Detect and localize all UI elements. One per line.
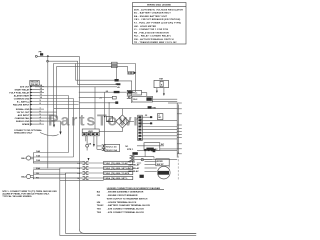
svg-text:B + BATT(+): B + BATT(+) [17, 100, 30, 103]
svg-text:AUX INPUT: AUX INPUT [18, 114, 30, 117]
connector CB1 on wires [112, 62, 118, 64]
svg-text:RL1 - RELAY 1 (CRANK RELAY): RL1 - RELAY 1 (CRANK RELAY) [134, 35, 171, 38]
battery BA2 [21, 167, 82, 180]
svg-text:BA - ENGINE BATTERY UNIT: BA - ENGINE BATTERY UNIT [134, 15, 168, 18]
svg-text:NO RELAY: NO RELAY [128, 167, 140, 170]
svg-text:T1/U1-1 41: T1/U1-1 41 [106, 145, 118, 148]
svg-text:FB - FIELD BOOST RESISTOR: FB - FIELD BOOST RESISTOR [134, 32, 169, 34]
relay RL1 [127, 90, 141, 95]
svg-text:ALARM START: ALARM START [14, 94, 30, 97]
battery charger BC box [137, 143, 165, 153]
svg-text:AVR - AUTOMATIC VOLTAGE REGULA: AVR - AUTOMATIC VOLTAGE REGULATOR [134, 8, 183, 11]
svg-text:FAILURE INPUT: FAILURE INPUT [13, 103, 30, 106]
small box left of diamond [106, 116, 112, 121]
ATS box [156, 159, 169, 166]
svg-text:14A: 14A [36, 150, 40, 153]
svg-text:WITH OUTPUT TO TRANSFER SWITCH: WITH OUTPUT TO TRANSFER SWITCH [107, 197, 148, 200]
terminal text rows center [97, 146, 102, 149]
op-amp AVR box [82, 129, 99, 136]
wire node down [47, 57, 49, 168]
strip wires to bus [142, 116, 152, 118]
TB terminal row [137, 149, 177, 151]
svg-text:J1 - CONNECTOR 1 FOR PCB: J1 - CONNECTOR 1 FOR PCB [134, 29, 168, 31]
connector circle top right [141, 158, 143, 160]
connector symbols small [130, 155, 135, 160]
svg-text:T2/U2-3 9A: T2/U2-3 9A [106, 149, 118, 152]
svg-text:START RELAY: START RELAY [14, 88, 29, 91]
terminal rows with boxes [33, 161, 133, 180]
svg-text:PIN NO: PIN NO [31, 84, 39, 86]
MOLEX header box [30, 80, 39, 85]
svg-text:CB1 - CIRCUIT BREAKER (EXCITAT: CB1 - CIRCUIT BREAKER (EXCITATION) [134, 18, 180, 21]
bridge rectifier diamond [116, 115, 129, 128]
svg-text:SPARE: SPARE [22, 123, 30, 126]
svg-text:COMMON GND: COMMON GND [14, 98, 30, 100]
fuse FJ hatched [128, 71, 137, 74]
boxed labels [104, 161, 133, 164]
svg-text:13A: 13A [36, 154, 40, 157]
svg-text:NC SG: NC SG [128, 161, 135, 163]
svg-text:T4/U4 (T4) GEN. SET L: T4/U4 (T4) GEN. SET L [104, 177, 128, 180]
svg-text:BA1: BA1 [21, 157, 26, 160]
wire top band y66.6 [57, 67, 128, 118]
svg-text:12A: 12A [36, 159, 40, 162]
alarm horn circle [158, 166, 171, 179]
svg-text:- ATS CONNECT TERMINAL BLOCK: - ATS CONNECT TERMINAL BLOCK [107, 211, 145, 214]
main verticals [68, 96, 70, 153]
svg-text:- HOURS TERMINAL BLOCK: - HOURS TERMINAL BLOCK [107, 201, 137, 204]
svg-text:- ENGINE CIRCUIT BREAKER: - ENGINE CIRCUIT BREAKER [107, 194, 138, 197]
node circle mid [47, 56, 48, 57]
hour meter HM [154, 78, 169, 87]
arrow above terminal [88, 158, 90, 161]
cap marks below connector [116, 83, 118, 84]
wire y78.8 with blob [76, 64, 115, 81]
svg-text:TYPICAL TAG AND SPARES.: TYPICAL TAG AND SPARES. [2, 195, 32, 198]
svg-text:ATS OUT: ATS OUT [20, 85, 30, 88]
svg-text:SHIELDING ONLY: SHIELDING ONLY [14, 133, 33, 135]
svg-text:HM: HM [97, 202, 101, 204]
svg-text:SHIELD GND: SHIELD GND [16, 121, 30, 123]
battery BA1 [21, 150, 82, 163]
svg-text:CM RELAY: CM RELAY [128, 164, 140, 167]
connector symbols [83, 162, 89, 180]
svg-text:4A: 4A [88, 143, 91, 146]
wire y84.6 [78, 84, 120, 86]
svg-text:T1/U1 (T1) GEN. TO AT: T1/U1 (T1) GEN. TO AT [104, 162, 128, 165]
svg-text:- ATS CONNECT TERMINAL BLOCK: - ATS CONNECT TERMINAL BLOCK [107, 208, 145, 211]
connector strip J2 [138, 115, 143, 140]
svg-text:BC: BC [161, 144, 165, 146]
wire y108.6 long [54, 108, 177, 110]
svg-text:HM - HOUR METER: HM - HOUR METER [134, 26, 156, 28]
pin stubs [30, 86, 32, 125]
svg-text:- BATTERY CHARGER TERMINAL BLO: - BATTERY CHARGER TERMINAL BLOCK [107, 204, 151, 207]
svg-text:BC - BATTERY CHARGER RECT: BC - BATTERY CHARGER RECT [134, 12, 171, 15]
wire y97.4 [79, 96, 113, 98]
svg-text:BA2: BA2 [21, 176, 26, 179]
svg-text:FJ - FUEL JET POWER (LOW AFQ T: FJ - FUEL JET POWER (LOW AFQ TYPE) [134, 22, 181, 25]
node circle 2 [47, 60, 49, 62]
legend bottom [97, 187, 164, 214]
svg-text:XFER: XFER [157, 161, 163, 163]
svg-text:CHARGE FAIL: CHARGE FAIL [15, 117, 30, 120]
svg-text:12V DC OUT: 12V DC OUT [17, 112, 31, 114]
svg-text:FJ/LP FUEL RELAY: FJ/LP FUEL RELAY [9, 91, 30, 94]
svg-text:CB: CB [97, 195, 101, 197]
svg-text:T2/U2 (T2) GEN. SET LD: T2/U2 (T2) GEN. SET LD [104, 168, 129, 170]
wire y92.2 [79, 91, 127, 93]
legend box top right [133, 3, 187, 45]
vertical drops [94, 87, 96, 129]
svg-text:4A RELAY: 4A RELAY [128, 170, 139, 173]
svg-text:- ENGINE ASSEMBLY GENERATOR: - ENGINE ASSEMBLY GENERATOR [107, 191, 144, 194]
svg-text:TR - TRANSFORMER NEW CC/CL MC: TR - TRANSFORMER NEW CC/CL MC [134, 41, 177, 44]
CB1 box [158, 114, 163, 120]
wire y102.8 [79, 102, 118, 104]
svg-text:WIRING DIAG LEGEND: WIRING DIAG LEGEND [147, 4, 171, 7]
svg-text:SW - AUTO/OFF/MANUAL SWITCH: SW - AUTO/OFF/MANUAL SWITCH [134, 38, 174, 41]
svg-text:BA: BA [97, 191, 101, 194]
connector J3 left column rows [9, 84, 78, 126]
svg-text:SW 2P: SW 2P [157, 164, 164, 166]
resistor FB [39, 52, 44, 56]
dashed vertical right [177, 152, 179, 180]
arrow down shield 1 [53, 118, 55, 124]
svg-text:PartsTown: PartsTown [48, 113, 145, 130]
node circle at FB output [35, 55, 37, 57]
arrow down shield 2 [60, 121, 62, 131]
wire FB to right then down [37, 55, 79, 57]
svg-text:1B: 1B [36, 173, 39, 175]
switch SW [148, 106, 152, 108]
svg-text:TB-BC: TB-BC [97, 205, 104, 207]
relay RL2 [132, 96, 153, 102]
wire y86.8 [35, 86, 117, 88]
svg-text:FA: FA [36, 177, 39, 180]
svg-text:HM: HM [159, 78, 163, 80]
svg-text:NTE 1: NTE 1 [127, 149, 134, 151]
svg-text:50A: 50A [36, 167, 40, 170]
right bus [176, 103, 178, 158]
svg-text:SIGNAL GND: SIGNAL GND [16, 108, 30, 111]
wire top band y63.3 [54, 64, 136, 125]
wire y61.2 then down [48, 61, 77, 84]
svg-text:T3/U3 (T3) GEN. TO ATS: T3/U3 (T3) GEN. TO ATS [104, 172, 129, 175]
relay label rows bottom left [128, 161, 157, 173]
